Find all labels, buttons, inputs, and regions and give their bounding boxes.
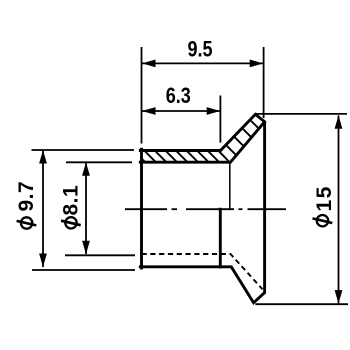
svg-text:9.5: 9.5 xyxy=(187,38,212,62)
svg-text:9.7: 9.7 xyxy=(15,181,38,212)
svg-text:6.3: 6.3 xyxy=(166,84,191,108)
svg-text:15: 15 xyxy=(313,185,336,211)
svg-text:8.1: 8.1 xyxy=(60,185,83,216)
